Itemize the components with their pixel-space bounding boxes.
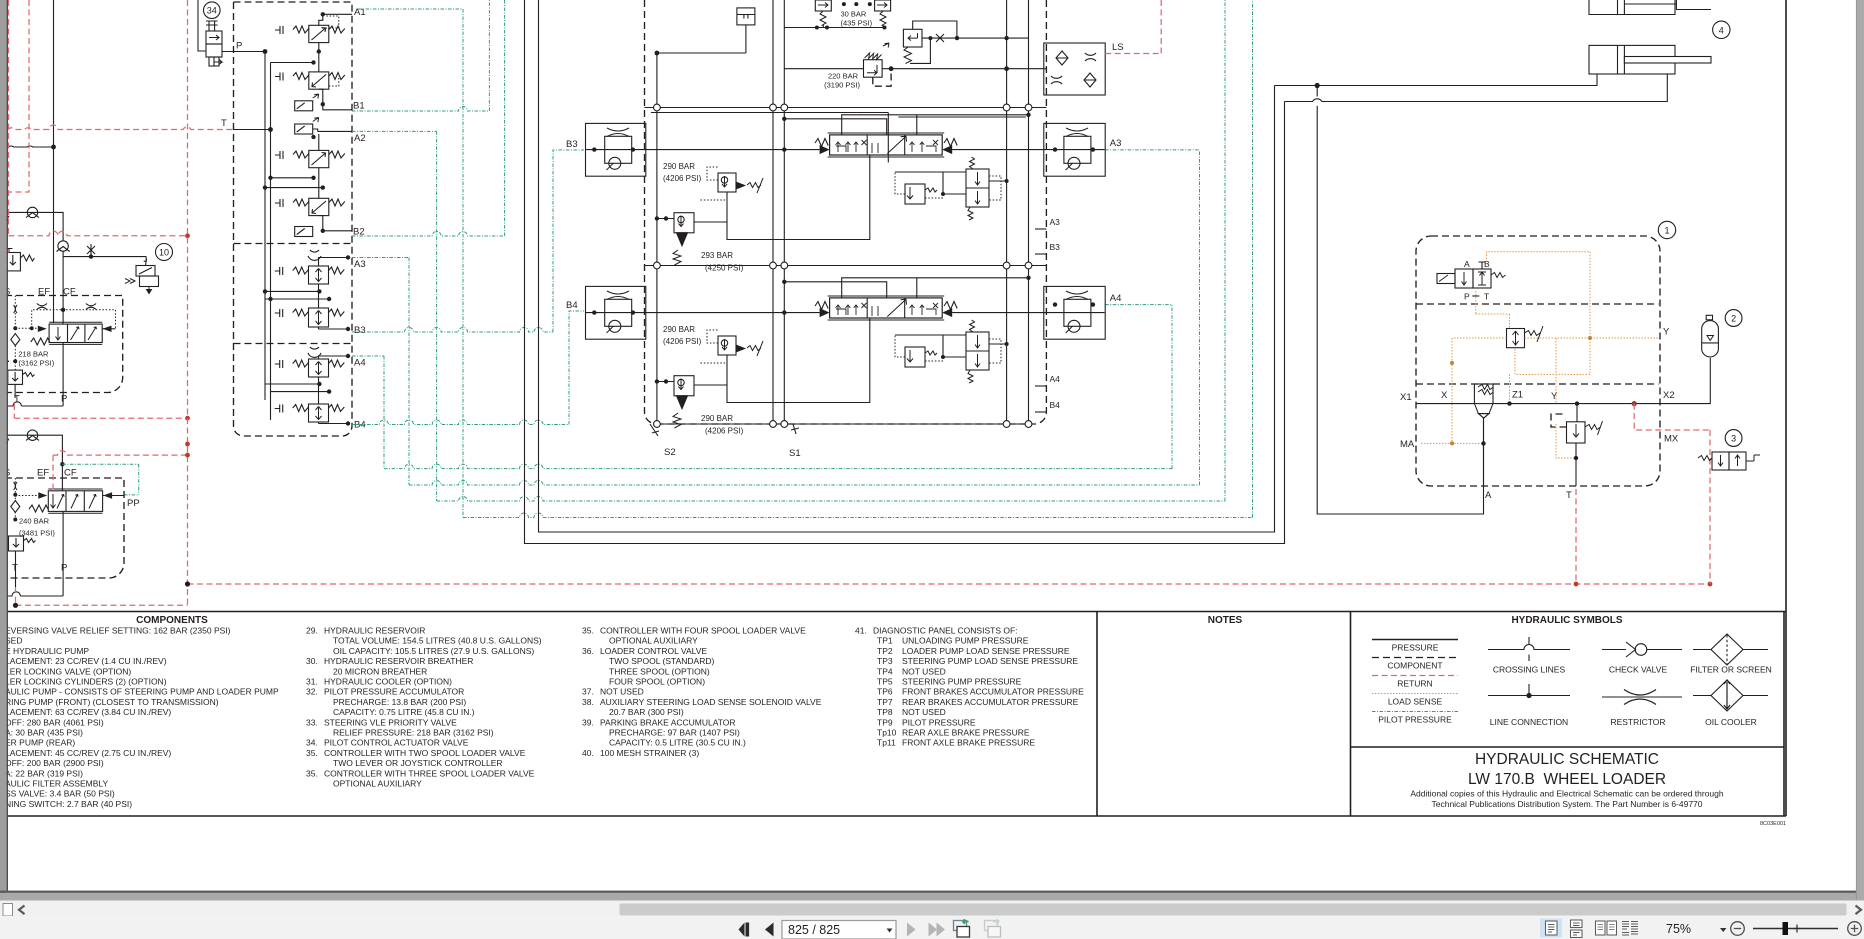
toolbar background <box>0 916 1864 939</box>
wire X1-X2 line <box>1416 403 1711 405</box>
green pump2 load sense <box>62 464 138 495</box>
pilot dash 220bar <box>873 71 891 86</box>
spring pump1 spool <box>31 338 50 345</box>
svg-text:Additional copies of this Hydr: Additional copies of this Hydraulic and … <box>1410 789 1724 799</box>
legend oil cooler <box>1693 680 1768 711</box>
svg-text:TOTAL VOLUME: 154.5 LITRES (40: TOTAL VOLUME: 154.5 LITRES (40.8 U.S. GA… <box>333 636 542 646</box>
svg-text:AUXILIARY STEERING LOAD SENSE: AUXILIARY STEERING LOAD SENSE SOLENOID V… <box>600 697 822 707</box>
sheet edge hatch marks <box>0 563 4 583</box>
green long run A4 <box>384 305 1172 469</box>
svg-text:TP5: TP5 <box>877 677 893 687</box>
svg-text:HYDRAULIC SYMBOLS: HYDRAULIC SYMBOLS <box>1511 615 1622 626</box>
svg-text:2: 2 <box>1731 314 1736 324</box>
node P rail top <box>263 49 268 54</box>
svg-text:(3481 PSI): (3481 PSI) <box>19 528 55 537</box>
pilot dash A1 <box>325 16 339 28</box>
unloader relief <box>903 29 922 63</box>
svg-text:Y: Y <box>1663 327 1670 338</box>
green A3 line <box>352 258 409 486</box>
divider port rings row2 <box>654 262 1032 269</box>
circled 1 <box>1658 221 1675 238</box>
green A4 line <box>352 356 384 469</box>
svg-text:LOAD SENSE: LOAD SENSE <box>1388 697 1443 707</box>
node A4 ports <box>1053 302 1057 306</box>
svg-text:FRONT BRAKES ACCUMULATOR PRESS: FRONT BRAKES ACCUMULATOR PRESSURE <box>902 687 1084 697</box>
orifice left <box>37 304 47 310</box>
first page button <box>739 923 745 937</box>
svg-text:A: A <box>1485 490 1492 501</box>
priority valve 33 dashed box <box>5 296 123 393</box>
dashes to sheet edge <box>2 360 15 362</box>
orange left branch <box>1452 338 1507 443</box>
check valve pump1 <box>57 241 70 252</box>
node X2 red tap <box>1632 401 1637 406</box>
svg-text:FRONT AXLE BRAKE PRESSURE: FRONT AXLE BRAKE PRESSURE <box>902 738 1035 748</box>
svg-text:35.: 35. <box>306 768 318 778</box>
svg-text:TP9: TP9 <box>877 717 893 727</box>
spring pump2 spool <box>29 505 48 512</box>
wire block rail R1 <box>1006 0 1008 424</box>
svg-text:(4206 PSI): (4206 PSI) <box>663 174 702 183</box>
svg-text:HYDRAULIC COOLER (OPTION): HYDRAULIC COOLER (OPTION) <box>324 677 452 687</box>
svg-text:RESTRICTOR: RESTRICTOR <box>1610 717 1665 727</box>
green B1 line <box>352 0 489 111</box>
relief valve 240bar <box>9 536 36 551</box>
svg-text:STEERING PUMP PRESSURE: STEERING PUMP PRESSURE <box>902 677 1022 687</box>
wire valve34 feed <box>198 0 206 51</box>
red left inner vertical <box>9 0 30 192</box>
plugged port X unloader <box>932 34 948 42</box>
svg-text:10: 10 <box>159 248 169 258</box>
svg-text:825 / 825: 825 / 825 <box>788 923 840 937</box>
svg-text:LACEMENT: 23 CC/REV (1.4 CU IN: LACEMENT: 23 CC/REV (1.4 CU IN./REV) <box>5 656 167 666</box>
brake relief valve <box>1567 421 1603 443</box>
pilot reducer row2 <box>718 336 763 356</box>
scrollbar left arrow <box>19 906 25 915</box>
spool valve row2 <box>828 296 945 320</box>
horizontal scrollbar thumb <box>620 904 1847 916</box>
red LS line <box>1105 0 1161 54</box>
orifice right <box>86 304 96 310</box>
wire A3 to spool <box>952 149 1104 151</box>
svg-text:LACEMENT: 63 CC/REV (3.84 CU I: LACEMENT: 63 CC/REV (3.84 CU IN./REV) <box>5 707 171 717</box>
svg-text:(4206 PSI): (4206 PSI) <box>705 427 744 436</box>
loader pump dashed box <box>5 478 124 578</box>
green A3 work port link <box>1105 149 1199 151</box>
pressure reducing valve brake <box>1507 326 1544 348</box>
wire A3 port stub <box>1035 228 1046 230</box>
svg-text:29.: 29. <box>306 626 318 636</box>
wire P rail <box>264 52 266 401</box>
node red bottom left <box>185 581 190 586</box>
spool pilot dotted pump2 <box>15 495 38 497</box>
section frame inner <box>898 116 1025 118</box>
red pump2 relief drain <box>15 587 17 605</box>
wire pilot row1 <box>694 155 870 240</box>
valve A2 <box>275 150 345 167</box>
svg-text:PARKING BRAKE ACCUMULATOR: PARKING BRAKE ACCUMULATOR <box>600 717 736 727</box>
svg-text:CHECK VALVE: CHECK VALVE <box>1609 665 1668 675</box>
svg-text:31.: 31. <box>306 677 318 687</box>
viewer background band below page <box>0 893 1864 901</box>
svg-text:RING PUMP (FRONT) (CLOSEST TO: RING PUMP (FRONT) (CLOSEST TO TRANSMISSI… <box>5 697 219 707</box>
next page button (disabled) <box>907 923 916 937</box>
svg-text:T: T <box>221 118 227 129</box>
viewer left gutter <box>0 0 7 893</box>
restrictor box B4 <box>586 286 646 339</box>
section divider 2 <box>645 265 1047 267</box>
svg-text:PRECHARGE: 97 BAR (1407 PSI): PRECHARGE: 97 BAR (1407 PSI) <box>609 728 740 738</box>
svg-text:33.: 33. <box>306 717 318 727</box>
comp solenoid row1 <box>966 157 989 220</box>
wire accumulator drop <box>1709 358 1711 404</box>
wire CF line to valve 10 <box>63 256 146 258</box>
wire pump1 P vertical <box>62 343 64 407</box>
red bottom stub to tank <box>16 604 188 606</box>
valve A4 <box>275 359 345 377</box>
svg-text:P: P <box>61 394 67 405</box>
svg-text:P: P <box>236 41 242 52</box>
circled 4 <box>1713 21 1730 38</box>
wire supply channel inner <box>539 0 1275 532</box>
legend load sense line <box>1372 693 1458 695</box>
valve 10 solenoid <box>125 266 159 294</box>
wire unloader pilot loop <box>910 38 930 63</box>
wire B3 port stub <box>1035 253 1046 255</box>
svg-text:T: T <box>1566 490 1572 501</box>
orange P tick <box>1472 295 1479 297</box>
wire pump1 CF through valve <box>62 251 64 324</box>
components column 2 <box>306 626 542 789</box>
pilot dash row2 <box>700 330 727 363</box>
wire cylinder line upper <box>1275 74 1598 86</box>
wire A2 valve stem <box>318 134 320 198</box>
svg-text:OIL COOLER: OIL COOLER <box>1705 717 1757 727</box>
accumulator 2 <box>1702 315 1719 357</box>
circled 3 <box>1725 430 1742 447</box>
restrictor box A4 <box>1044 286 1105 339</box>
node red bottom right junctions <box>1574 582 1579 587</box>
svg-text:MX: MX <box>1664 434 1679 445</box>
node filter-rail <box>655 51 660 56</box>
svg-text:LER LOCKING VALVE (OPTION): LER LOCKING VALVE (OPTION) <box>5 666 131 676</box>
wire pump2 right port <box>103 495 124 497</box>
green B4 line <box>352 311 584 425</box>
relief 30bar right <box>875 0 891 26</box>
spool end right <box>942 145 952 154</box>
page bottom edge <box>0 891 1856 893</box>
valve B3 <box>275 308 345 327</box>
restrictor box B3 <box>586 123 646 176</box>
pump2 right port arrow <box>103 492 112 498</box>
svg-text:T: T <box>12 563 18 574</box>
svg-text:STEERING VLE PRIORITY VALVE: STEERING VLE PRIORITY VALVE <box>324 717 457 727</box>
cylinder 4 upper body <box>1589 0 1711 15</box>
priority spool brake <box>1474 384 1493 418</box>
svg-text:20 MICRON BREATHER: 20 MICRON BREATHER <box>333 666 427 676</box>
green A4 work port link <box>1105 304 1172 306</box>
check diamond S line <box>11 334 20 346</box>
wire P line <box>222 51 265 53</box>
components column 1 <box>5 626 279 809</box>
two page layout button <box>1596 921 1617 935</box>
valve A1 <box>275 25 345 42</box>
wire A4 port stub <box>1035 385 1046 387</box>
wire filter drop <box>657 25 746 53</box>
svg-text:RETURN: RETURN <box>1397 679 1432 689</box>
svg-text:X1: X1 <box>1400 392 1412 403</box>
220 BAR relief <box>864 43 890 77</box>
S dotted line <box>14 296 16 371</box>
svg-text:HYDRAULIC SCHEMATIC: HYDRAULIC SCHEMATIC <box>1475 751 1659 768</box>
wire pump2 bottom <box>4 592 63 596</box>
orange loop B <box>1487 252 1590 375</box>
svg-text:3: 3 <box>1731 434 1736 444</box>
trailer brake valve 3 <box>1698 452 1760 470</box>
valve B4 <box>275 404 345 422</box>
node X1 line dots <box>1507 401 1511 405</box>
node red pump2 junction <box>185 453 190 458</box>
wire block rail P1 <box>772 0 774 424</box>
pump2 inlet arrow <box>3 435 9 445</box>
S2 S1 marks <box>650 424 659 436</box>
svg-text:HYDRAULIC RESERVOIR: HYDRAULIC RESERVOIR <box>324 626 425 636</box>
svg-text:PP: PP <box>127 498 140 509</box>
svg-text:36.: 36. <box>582 646 594 656</box>
svg-text:CONTROLLER WITH TWO SPOOL LOAD: CONTROLLER WITH TWO SPOOL LOADER VALVE <box>324 748 526 758</box>
svg-text:290 BAR: 290 BAR <box>663 325 695 334</box>
previous view icon <box>954 921 967 931</box>
continuous layout button <box>1571 920 1583 938</box>
svg-text:A: 30 BAR (435 PSI): A: 30 BAR (435 PSI) <box>5 728 83 738</box>
spool valve row1 <box>828 133 945 157</box>
node pump2 green tap <box>60 462 64 466</box>
svg-text:B4: B4 <box>1050 400 1061 410</box>
wire A3-B3 links <box>265 284 329 308</box>
bottom rail <box>657 423 1035 425</box>
svg-text:S1: S1 <box>789 448 801 459</box>
wire pump2 top boundary <box>6 435 63 491</box>
anticav relief row2 <box>905 347 937 367</box>
components column 4 <box>855 626 1084 748</box>
dash box brake relief <box>1551 414 1567 427</box>
valve B1 <box>275 72 345 89</box>
wire 293 link <box>657 218 674 220</box>
circled 2 <box>1725 310 1742 327</box>
wire cluster mid links <box>265 178 323 188</box>
svg-text:OFF: 200 BAR (2900 PSI): OFF: 200 BAR (2900 PSI) <box>5 758 104 768</box>
svg-text:REAR AXLE BRAKE PRESSURE: REAR AXLE BRAKE PRESSURE <box>902 728 1030 738</box>
svg-text:LW 170.B WHEEL LOADER: LW 170.B WHEEL LOADER <box>1468 771 1666 788</box>
anticav relief row1 <box>905 184 937 204</box>
svg-text:ER PUMP (REAR): ER PUMP (REAR) <box>5 738 75 748</box>
restrictor box A3 <box>1044 123 1105 176</box>
node cylinder tee <box>1315 83 1320 88</box>
wire A drop <box>1483 417 1485 486</box>
wire spool bridge taps <box>784 115 1028 135</box>
LS check diamond 2 <box>1084 73 1096 87</box>
svg-text:8C03E001: 8C03E001 <box>1760 821 1786 827</box>
pilot dash B1 <box>329 76 339 86</box>
svg-text:37.: 37. <box>582 687 594 697</box>
wire cylinder line lower <box>1285 74 1668 102</box>
svg-text:A4: A4 <box>354 358 366 369</box>
svg-text:AULIC PUMP - CONSISTS OF STEER: AULIC PUMP - CONSISTS OF STEERING PUMP A… <box>5 687 279 697</box>
svg-text:(435 PSI): (435 PSI) <box>841 19 873 28</box>
svg-text:Y: Y <box>1551 391 1558 402</box>
node pump2 S dot2 <box>13 518 17 522</box>
svg-text:TP4: TP4 <box>877 666 893 676</box>
svg-text:4: 4 <box>1719 25 1724 35</box>
svg-text:40.: 40. <box>582 748 594 758</box>
red pump1 header <box>9 231 188 236</box>
svg-text:38.: 38. <box>582 697 594 707</box>
svg-text:Tp10: Tp10 <box>877 728 897 738</box>
svg-text:NOT USED: NOT USED <box>600 687 644 697</box>
scrollbar page icon <box>3 904 13 917</box>
node red tank <box>13 603 18 608</box>
legend return line <box>1372 675 1458 677</box>
valve 10 stem <box>144 257 147 266</box>
svg-text:P: P <box>1464 292 1470 302</box>
serpentine coupler lower <box>308 347 321 357</box>
wire B4 port <box>319 422 349 424</box>
svg-text:COMPONENTS: COMPONENTS <box>136 615 208 626</box>
orange Y line <box>1525 337 1659 339</box>
wire A1 top <box>319 14 352 25</box>
restrictor S line <box>14 305 17 313</box>
last page button (disabled) <box>929 923 938 937</box>
relief 293 <box>673 213 694 265</box>
vertical scrollbar <box>1856 0 1864 901</box>
circled 34 <box>204 2 221 19</box>
wire unloader top link <box>913 21 957 38</box>
wire pump1 top boundary <box>6 212 64 240</box>
serpentine coupler upper <box>308 250 321 260</box>
legend component line <box>1372 657 1458 659</box>
svg-text:TP8: TP8 <box>877 707 893 717</box>
solenoid B1 <box>295 94 319 111</box>
dash box comp row2 <box>989 339 1001 363</box>
svg-text:A3: A3 <box>1050 217 1061 227</box>
svg-text:COMPONENT: COMPONENT <box>1387 661 1442 671</box>
orange MA line <box>1421 442 1484 444</box>
svg-text:CF: CF <box>64 468 77 479</box>
bottom port rings <box>654 421 1032 428</box>
wire comp row2 <box>895 335 1007 357</box>
solenoid B2 <box>295 227 313 237</box>
svg-text:(3162 PSI): (3162 PSI) <box>18 359 54 368</box>
relief 30bar left <box>815 0 831 26</box>
svg-text:NOT USED: NOT USED <box>902 666 946 676</box>
check circle pump1 boundary <box>26 207 39 217</box>
svg-text:34: 34 <box>207 6 217 16</box>
node A3 ports <box>1053 147 1057 151</box>
svg-text:A3: A3 <box>1110 138 1122 149</box>
legend line connection <box>1488 684 1570 696</box>
dash link row2 <box>895 335 943 361</box>
spool end left row2 <box>820 308 830 317</box>
svg-text:100 MESH STRAINER (3): 100 MESH STRAINER (3) <box>600 748 699 758</box>
svg-text:FILTER OR SCREEN: FILTER OR SCREEN <box>1690 665 1772 675</box>
svg-text:THREE SPOOL (OPTION): THREE SPOOL (OPTION) <box>609 666 710 676</box>
svg-text:NING SWITCH: 2.7 BAR (40 PSI): NING SWITCH: 2.7 BAR (40 PSI) <box>5 799 132 809</box>
svg-text:35.: 35. <box>582 626 594 636</box>
svg-text:X2: X2 <box>1663 390 1675 401</box>
green B2 line <box>352 0 505 236</box>
wire unloader out line <box>922 37 1029 39</box>
wire B4 port stub <box>1035 411 1046 413</box>
red bottom long return <box>188 583 1711 585</box>
svg-text:290 BAR: 290 BAR <box>663 162 695 171</box>
svg-text:TWO LEVER OR JOYSTICK CONTROLL: TWO LEVER OR JOYSTICK CONTROLLER <box>333 758 503 768</box>
legend pressure line <box>1372 639 1458 641</box>
svg-text:AULIC FILTER ASSEMBLY: AULIC FILTER ASSEMBLY <box>5 779 108 789</box>
svg-text:(4250 PSI): (4250 PSI) <box>705 264 744 273</box>
wire comp row1 <box>895 172 1007 194</box>
wire 220bar line <box>784 68 1046 70</box>
svg-text:CAPACITY: 0.5 LITRE (30.5 CU I: CAPACITY: 0.5 LITRE (30.5 CU IN.) <box>609 738 746 748</box>
svg-text:30 BAR: 30 BAR <box>841 10 867 19</box>
svg-text:39.: 39. <box>582 717 594 727</box>
section divider 1 <box>645 107 1047 109</box>
svg-text:TP3: TP3 <box>877 656 893 666</box>
svg-text:HYDRAULIC RESERVOIR BREATHER: HYDRAULIC RESERVOIR BREATHER <box>324 656 473 666</box>
comp solenoid row2 <box>966 320 989 383</box>
svg-text:B3: B3 <box>566 139 578 150</box>
spool end left <box>820 145 830 154</box>
svg-text:TP1: TP1 <box>877 636 893 646</box>
svg-text:X: X <box>1441 390 1448 401</box>
svg-text:1: 1 <box>1664 226 1669 236</box>
svg-text:LINE CONNECTION: LINE CONNECTION <box>1490 717 1568 727</box>
wire pump1 relief T <box>14 384 16 398</box>
wire pump1 inlet arrow <box>3 212 9 222</box>
legend pilot pressure line <box>1372 711 1458 713</box>
svg-text:(3190 PSI): (3190 PSI) <box>824 81 860 90</box>
wire spool bridge taps row2 <box>784 278 1028 298</box>
node S relief <box>13 359 17 363</box>
svg-text:20.7 BAR (300 PSI): 20.7 BAR (300 PSI) <box>609 707 684 717</box>
two page continuous button <box>1622 922 1638 936</box>
wire B1 port <box>319 89 352 110</box>
red MX line <box>1634 404 1710 584</box>
wire A1-P link <box>318 43 320 72</box>
cluster dashed box <box>234 2 353 436</box>
zoom out button <box>1731 922 1745 936</box>
wire T top link <box>271 62 314 64</box>
svg-text:LOADER PUMP LOAD SENSE PRESSUR: LOADER PUMP LOAD SENSE PRESSURE <box>902 646 1070 656</box>
node S dotted <box>13 326 17 330</box>
wire 30bar bottom link <box>784 25 884 28</box>
svg-text:CROSSING LINES: CROSSING LINES <box>1493 665 1566 675</box>
LS orifice 1 <box>1085 53 1096 61</box>
dash box comp row1 <box>989 176 1001 200</box>
svg-text:Z1: Z1 <box>1512 390 1523 401</box>
orange T tap <box>1548 424 1576 458</box>
section frame outer <box>651 113 888 163</box>
wire block rail R2 <box>1028 0 1030 424</box>
wire 290 link row2 <box>657 381 674 383</box>
svg-text:B3: B3 <box>1050 242 1061 252</box>
wire T rail <box>270 63 272 421</box>
svg-text:NOT USED: NOT USED <box>902 707 946 717</box>
node red pump1 drain <box>185 416 190 421</box>
restrictor pump2 S <box>14 482 17 490</box>
svg-text:240 BAR: 240 BAR <box>19 517 50 526</box>
valve A3 <box>275 266 345 284</box>
wire pump1 bottom <box>2 402 63 406</box>
